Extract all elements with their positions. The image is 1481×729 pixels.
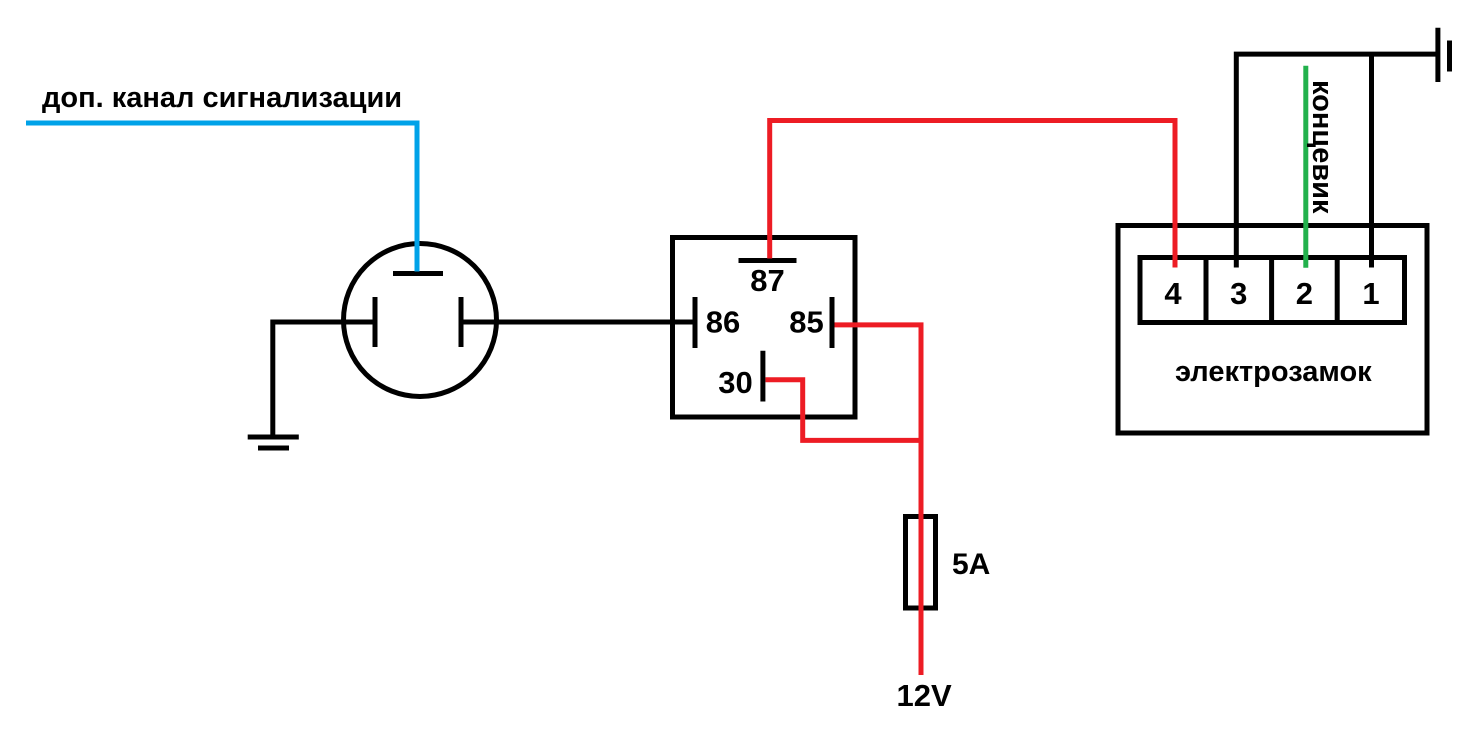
svg-text:87: 87 xyxy=(750,263,784,298)
pin label 30 xyxy=(718,365,752,400)
socket top pin bar xyxy=(393,271,443,276)
pin label 1 xyxy=(1362,276,1379,311)
ground (left) xyxy=(248,437,299,448)
electric lock box (электрозамок) xyxy=(1118,226,1427,434)
wire: socket right pin to relay pin 86 xyxy=(461,320,693,325)
wire: socket left pin to ground xyxy=(273,322,375,437)
connector divider 2|1 xyxy=(1335,258,1340,323)
wire (red): relay pin 85 through fuse to 12V xyxy=(835,325,922,675)
pin label 86 xyxy=(706,305,740,340)
net label концевик (rotated) xyxy=(1306,80,1338,214)
relay pin 86 bar xyxy=(693,297,698,348)
svg-text:3: 3 xyxy=(1230,276,1247,311)
pin label 2 xyxy=(1296,276,1313,311)
svg-text:85: 85 xyxy=(789,305,823,340)
wire (red): relay pin 87 to lock pin 4 xyxy=(770,121,1175,268)
svg-text:30: 30 xyxy=(718,365,752,400)
relay pin 87 bar xyxy=(739,258,797,263)
relay socket S1 (circle) xyxy=(344,244,497,397)
net label: доп. канал сигнализации xyxy=(42,82,402,114)
wire (red): relay pin 30 to 85/fuse junction xyxy=(766,380,922,441)
connector divider 4|3 xyxy=(1204,258,1209,323)
wire: ground rail to lock pin 1 xyxy=(1369,54,1374,267)
pin label 4 xyxy=(1164,276,1182,311)
wire (blue): alarm aux channel to socket top pin xyxy=(26,123,417,272)
fuse F1 xyxy=(906,517,936,609)
svg-text:86: 86 xyxy=(706,305,740,340)
relay pin 30 bar xyxy=(760,351,765,402)
wire: lock pin 3 to ground rail xyxy=(1236,54,1436,267)
lock connector strip xyxy=(1140,258,1405,323)
svg-text:электрозамок: электрозамок xyxy=(1175,356,1372,388)
svg-text:доп. канал сигнализации: доп. канал сигнализации xyxy=(42,82,402,114)
svg-text:1: 1 xyxy=(1362,276,1379,311)
relay K1 body xyxy=(673,238,856,418)
svg-text:12V: 12V xyxy=(897,678,952,713)
svg-text:4: 4 xyxy=(1164,276,1182,311)
svg-text:2: 2 xyxy=(1296,276,1313,311)
net label 12V xyxy=(897,678,952,713)
relay pin 85 bar xyxy=(830,297,835,348)
socket right pin bar xyxy=(459,297,464,347)
svg-text:5A: 5A xyxy=(952,548,990,581)
socket left pin bar xyxy=(373,297,378,347)
pin label 85 xyxy=(789,305,823,340)
connector divider 3|2 xyxy=(1269,258,1274,323)
pin label 3 xyxy=(1230,276,1247,311)
wire (green): концевик to lock pin 2 xyxy=(1303,66,1308,268)
svg-text:концевик: концевик xyxy=(1306,80,1338,214)
pin label 87 xyxy=(750,263,784,298)
value label 5A xyxy=(952,548,990,581)
ground (top right) xyxy=(1438,28,1450,82)
component label: электрозамок xyxy=(1175,356,1372,388)
